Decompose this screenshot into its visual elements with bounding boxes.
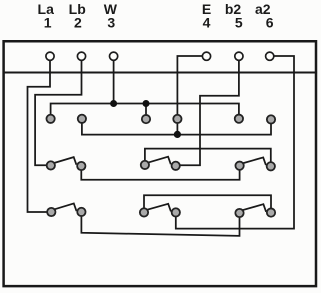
svg-text:6: 6 <box>266 15 274 31</box>
svg-text:1: 1 <box>44 15 52 31</box>
svg-text:2: 2 <box>74 15 82 31</box>
svg-text:3: 3 <box>107 15 115 31</box>
svg-text:4: 4 <box>203 15 211 31</box>
svg-text:5: 5 <box>235 15 243 31</box>
